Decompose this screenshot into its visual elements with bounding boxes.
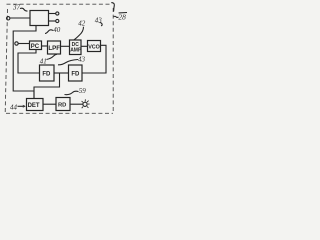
svg-text:40: 40 [53,26,61,34]
svg-text:43: 43 [78,56,86,64]
svg-text:59: 59 [79,87,87,95]
leader 28 hook [111,3,114,12]
low-pass filter LPF [48,41,61,54]
frequency divider FD1 [40,65,55,81]
terminal circle 2 [56,19,59,22]
RD box [56,98,70,111]
lamp [83,102,87,106]
leader 43 fd [58,60,78,65]
wire input to top box [10,17,31,19]
wire output 1 [49,13,56,15]
svg-text:FD: FD [42,72,51,78]
svg-text:43: 43 [95,16,103,24]
svg-text:41: 41 [40,57,47,65]
leader 41 [47,54,58,59]
wire loop from top box to DET [13,26,36,99]
wire FD2 to FD1 [54,72,69,74]
detector DET [27,99,44,111]
wire output 2 [49,20,56,22]
wire PC to LPF [42,45,48,47]
svg-text:PC: PC [31,44,40,50]
svg-text:44: 44 [10,103,18,111]
wire LPF to DC AMP [61,45,70,47]
leader 37 [20,8,28,11]
svg-text:42: 42 [78,20,86,28]
svg-text:37: 37 [12,4,21,12]
wire RD to lamp [70,103,83,105]
svg-text:RD: RD [58,103,66,109]
dashed enclosure 28 [5,4,113,113]
svg-text:FD: FD [71,72,80,78]
svg-text:DET: DET [28,103,40,109]
svg-text:VCO: VCO [88,44,100,50]
leader 59 [65,91,79,94]
leader arrow 44 [18,105,26,107]
DC amplifier [70,40,82,55]
frequency divider FD2 [69,65,83,81]
svg-text:LPF: LPF [48,45,60,52]
oscillator box (top) [30,11,49,26]
svg-text:AMP: AMP [70,48,82,54]
svg-text:28: 28 [118,12,126,21]
wire DC AMP to VCO [81,45,88,47]
leader 40 [45,30,53,34]
wire interconnect drop to DET [34,73,60,99]
wire FD1 feedback to PC [18,50,40,74]
phase comparator PC [30,41,42,50]
terminal circle 1 [56,12,59,15]
wire VCO output to FD2 [82,45,106,73]
wire DET to RD [43,103,56,105]
leader 43 vco [100,23,103,26]
node terminal on left border [7,17,10,20]
VCO box [88,41,101,52]
wire terminal to PC [18,43,29,45]
leader 42 [74,27,84,40]
terminal circle PC input [15,42,18,45]
